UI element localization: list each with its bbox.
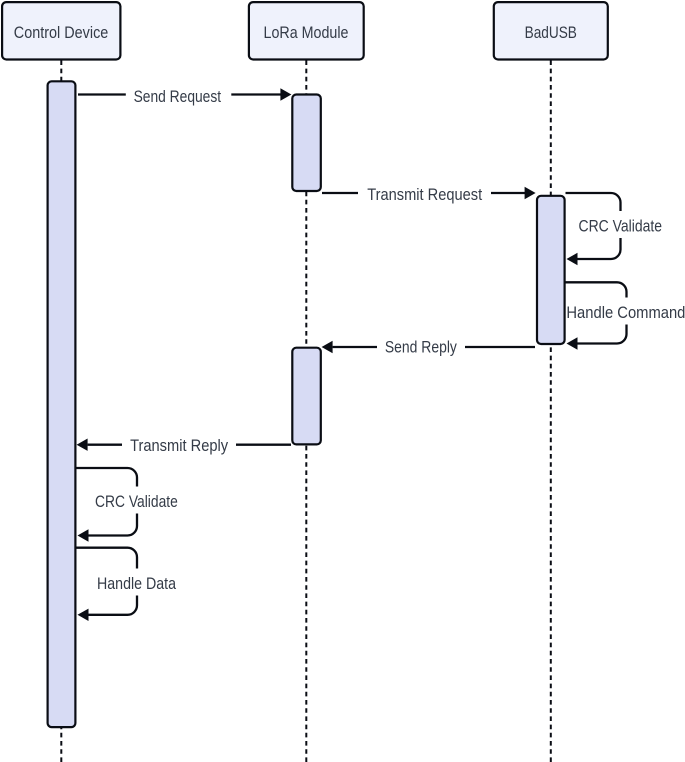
svg-text:Handle Command: Handle Command [566, 304, 685, 322]
svg-text:BadUSB: BadUSB [525, 24, 577, 42]
self message Handle Data on Control Device [77, 548, 184, 621]
svg-text:Transmit Reply: Transmit Reply [130, 437, 229, 455]
self message CRC Validate on BadUSB [566, 193, 668, 265]
svg-text:Control Device: Control Device [14, 24, 109, 42]
svg-text:Send Request: Send Request [134, 88, 222, 106]
participant box LoRa Module [249, 2, 364, 59]
participant box Control Device [2, 2, 120, 59]
lifeline Control Device [60, 60, 62, 762]
message arrow Send Reply [322, 338, 535, 356]
message arrow Transmit Reply [77, 437, 291, 455]
self message Handle Command on BadUSB [566, 282, 685, 349]
lifeline LoRa Module [305, 60, 307, 762]
svg-text:CRC Validate: CRC Validate [579, 218, 663, 236]
svg-text:CRC Validate: CRC Validate [95, 493, 178, 511]
participant box BadUSB [494, 2, 608, 59]
lifeline BadUSB [550, 60, 552, 762]
activation bar LoRa Module (first) [292, 95, 321, 192]
message arrow Transmit Request [322, 186, 536, 204]
activation bar BadUSB [537, 196, 565, 344]
activation bar LoRa Module (second) [292, 348, 321, 445]
self message CRC Validate on Control Device [77, 468, 185, 542]
svg-text:LoRa Module: LoRa Module [264, 24, 349, 42]
svg-text:Handle Data: Handle Data [97, 575, 177, 593]
message arrow Send Request [78, 88, 291, 106]
activation bar Control Device [48, 81, 76, 727]
svg-text:Transmit Request: Transmit Request [367, 186, 482, 204]
svg-text:Send Reply: Send Reply [385, 338, 458, 356]
